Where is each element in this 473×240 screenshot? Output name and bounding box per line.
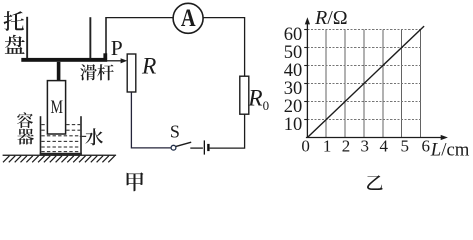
wire R0 top to ammeter: [203, 18, 244, 77]
svg-text:4: 4: [379, 137, 388, 156]
svg-text:0: 0: [263, 98, 270, 113]
ammeter A: [173, 3, 203, 33]
wire battery to right corner: [210, 114, 245, 148]
slider arrow to R: [107, 58, 127, 63]
svg-text:L/cm: L/cm: [430, 140, 470, 161]
svg-text:P: P: [111, 36, 123, 60]
y axis: [305, 17, 310, 137]
ground hatching: [3, 156, 115, 163]
node P post (wire from slider bar to top wire): [105, 17, 107, 58]
label 托 (tray): [4, 11, 24, 31]
svg-text:6: 6: [421, 137, 430, 156]
grid vertical lines: [326, 30, 420, 138]
svg-text:2: 2: [342, 137, 351, 156]
svg-text:10: 10: [284, 115, 303, 135]
wire R bottom to corner: [131, 92, 171, 148]
battery short thick plate: [207, 144, 209, 151]
svg-text:R: R: [247, 86, 262, 112]
battery long plate: [204, 140, 205, 154]
R-L characteristic line: [307, 26, 424, 137]
label 甲 (figure jia): [127, 172, 144, 191]
tray bar: [21, 58, 107, 62]
resistor R (rheostat body): [127, 54, 136, 92]
label 器: [17, 129, 34, 145]
wire ammeter to P post: [106, 17, 173, 19]
svg-text:40: 40: [284, 61, 303, 81]
y axis ticks: [304, 30, 307, 120]
svg-text:30: 30: [284, 79, 303, 99]
svg-text:A: A: [181, 3, 196, 32]
mass M box: [47, 81, 65, 134]
switch S pivot: [171, 145, 176, 150]
water surface dashes: [41, 125, 80, 152]
ground line: [3, 155, 117, 156]
container left wall: [40, 116, 42, 155]
svg-text:1: 1: [323, 137, 332, 156]
label 盘: [5, 35, 25, 54]
water leader tick: [80, 135, 86, 137]
svg-text:R/Ω: R/Ω: [314, 7, 348, 29]
svg-text:R: R: [141, 53, 156, 79]
svg-text:5: 5: [401, 137, 410, 156]
label 杆 (rod): [97, 64, 114, 80]
svg-text:S: S: [170, 122, 180, 142]
svg-text:0: 0: [301, 137, 310, 156]
svg-text:60: 60: [284, 25, 303, 45]
grid horizontal lines: [307, 30, 420, 120]
svg-text:M: M: [50, 96, 63, 118]
container right wall: [80, 116, 82, 155]
container bottom: [40, 153, 82, 155]
svg-text:3: 3: [361, 137, 370, 156]
svg-text:20: 20: [284, 97, 303, 117]
tray left pin: [26, 17, 28, 59]
wire lever to battery: [190, 147, 203, 149]
label 水 (water): [85, 128, 103, 145]
resistor R0: [240, 76, 249, 114]
tray right pin: [89, 17, 91, 58]
switch S lever: [176, 142, 191, 146]
label 乙 (figure yi): [367, 175, 383, 190]
hanger rod from tray to mass: [57, 62, 61, 81]
svg-text:50: 50: [284, 43, 303, 63]
label 滑 (slide): [80, 64, 97, 80]
x axis: [306, 135, 448, 140]
label 容 (container): [17, 112, 33, 128]
